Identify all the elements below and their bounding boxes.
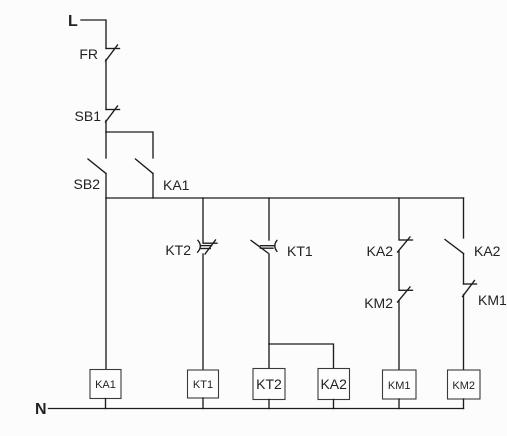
coil KA1 xyxy=(90,370,121,399)
wire main bus xyxy=(106,197,464,199)
wire KT2 branch upper xyxy=(268,198,270,240)
wire KM1 branch upper xyxy=(398,198,400,239)
contact KA2 NC (left) xyxy=(398,237,413,252)
contact FR (NC thermal relay contact) xyxy=(106,45,120,61)
contact KT1 (time-delay contact) xyxy=(251,240,277,253)
svg-text:KT2: KT2 xyxy=(165,242,191,258)
wire N bus xyxy=(49,408,464,410)
svg-text:L: L xyxy=(68,13,78,30)
wire KM2 coil stub xyxy=(463,399,465,409)
wire KM1 NC to KM2 coil xyxy=(463,295,465,371)
wire L lead xyxy=(81,20,106,49)
svg-text:KA1: KA1 xyxy=(95,379,116,391)
wire SB2 to bus xyxy=(105,174,107,199)
wire KT1 coil stub xyxy=(202,398,204,409)
svg-text:KM2: KM2 xyxy=(452,380,475,392)
svg-text:KT1: KT1 xyxy=(193,379,213,391)
wire KA2 NO to KM1 NC xyxy=(463,254,465,285)
svg-text:KA1: KA1 xyxy=(163,177,190,193)
wire left branch to SB2 xyxy=(105,132,107,158)
svg-text:KM2: KM2 xyxy=(364,295,393,311)
contact SB1 (NC stop button) xyxy=(106,106,120,122)
contact SB2 (NO start button) xyxy=(88,159,106,174)
coil KT2 xyxy=(253,369,285,400)
coil KM1 xyxy=(383,370,417,399)
contact KM1 (NC interlock) xyxy=(463,281,477,297)
wire KA1 coil branch xyxy=(105,198,107,370)
wire FR to SB1 xyxy=(105,60,107,110)
svg-text:KM1: KM1 xyxy=(388,380,411,392)
wire parallel branch top xyxy=(106,132,153,158)
coil KM2 xyxy=(448,370,481,399)
wire KA1 contact to bus xyxy=(152,174,154,199)
contact KM2 (NC interlock) xyxy=(398,287,413,302)
wire KA2 NC to KM2 NC xyxy=(398,251,400,290)
wire KM1 coil stub xyxy=(398,399,400,409)
svg-text:FR: FR xyxy=(79,46,98,62)
svg-text:SB2: SB2 xyxy=(74,176,101,192)
coil KA2 xyxy=(318,369,350,400)
svg-text:SB1: SB1 xyxy=(75,108,102,124)
wire split to KT2 coil xyxy=(268,344,270,369)
wire KT1 branch upper xyxy=(202,198,204,243)
wire KT2 contact to KT1 coil xyxy=(202,254,204,370)
svg-text:KA2: KA2 xyxy=(320,376,347,392)
wire KM2 NC to KM1 coil xyxy=(398,301,400,370)
coil KT1 xyxy=(188,370,219,398)
svg-text:N: N xyxy=(35,401,47,418)
wire KT2 coil stub xyxy=(268,400,270,409)
wire KM2 branch upper xyxy=(463,198,465,238)
wire split to KA2 coil xyxy=(269,344,334,369)
svg-text:KA2: KA2 xyxy=(474,243,501,259)
svg-text:KM1: KM1 xyxy=(478,292,507,308)
wire SB1 to branch split xyxy=(105,121,107,133)
contact KA2 NO (right) xyxy=(445,240,464,254)
wire KT1 contact to split xyxy=(268,254,270,344)
wire KA2 coil stub xyxy=(333,400,335,409)
wire KA1 coil stub xyxy=(105,399,107,409)
svg-text:KT1: KT1 xyxy=(287,243,313,259)
contact KT2 (NC time-delay contact) xyxy=(198,240,217,254)
svg-text:KT2: KT2 xyxy=(256,376,282,392)
svg-text:KA2: KA2 xyxy=(367,243,394,259)
contact KA1 (NO seal-in contact) xyxy=(136,159,154,174)
